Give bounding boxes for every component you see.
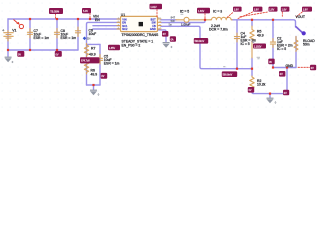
svg-text:GND: GND — [286, 64, 294, 68]
svg-text:EN: EN — [95, 18, 100, 22]
U1 pin numbers — [118, 18, 162, 30]
svg-text:0V: 0V — [269, 61, 272, 64]
capacitor C6 — [75, 27, 80, 37]
wire top rail left V1 to U1 VIN — [8, 18, 121, 20]
V1 plus mark — [2, 29, 4, 31]
svg-text:V1: V1 — [12, 28, 16, 32]
probe diamond EN — [83, 37, 87, 41]
svg-text:U1: U1 — [121, 13, 125, 17]
net label box n6 — [269, 7, 278, 12]
net label box VG_BAT — [49, 8, 63, 14]
svg-text:IC = 3: IC = 3 — [213, 9, 222, 13]
wire RLOAD column — [295, 37, 297, 68]
net label box gnd2 — [170, 36, 176, 42]
wire right gnd riser — [286, 68, 288, 94]
current probe arrow — [14, 20, 24, 29]
resistor R2 — [250, 76, 254, 89]
svg-text:1.192V: 1.192V — [254, 45, 262, 48]
net label box fbnode — [222, 71, 237, 77]
resistor R5 — [250, 26, 254, 58]
wire C8 column — [56, 19, 58, 50]
probe mark above r5 label — [252, 41, 255, 43]
capacitor C4 — [234, 33, 239, 42]
net label box n7 — [281, 7, 290, 12]
wire BST stub to ammeter — [161, 19, 176, 21]
svg-text:599.8mV: 599.8mV — [195, 40, 205, 43]
resistor R7 — [84, 44, 88, 57]
svg-text:5.0V: 5.0V — [83, 10, 88, 13]
inductor L1 — [211, 17, 233, 19]
wire C7 column — [29, 19, 31, 50]
ammeter A1 — [176, 17, 211, 22]
net label box BST — [150, 4, 163, 9]
svg-text:EN: EN — [87, 36, 91, 40]
wire R5 column — [251, 20, 253, 26]
net label box en — [108, 45, 120, 50]
svg-text:0V: 0V — [311, 67, 314, 70]
net label box VIN — [82, 8, 91, 13]
wire ground stub middle — [93, 85, 95, 90]
net label box n5 — [253, 7, 262, 12]
svg-text:847: 847 — [171, 15, 176, 19]
ground near U1 — [163, 42, 170, 48]
wire IC GND branch — [157, 30, 166, 42]
ground bottom left — [5, 50, 12, 62]
svg-text:R7: R7 — [91, 47, 95, 51]
svg-text:1.8V: 1.8V — [234, 9, 239, 12]
net label box fb — [194, 38, 208, 44]
wire top rail right — [232, 20, 296, 27]
wire C6 column — [77, 19, 79, 50]
svg-text:674.7uV: 674.7uV — [81, 60, 90, 63]
capacitor C2 — [270, 39, 275, 48]
svg-text:0V: 0V — [18, 53, 21, 56]
net label box gndb — [283, 90, 289, 95]
net label box r5b — [253, 44, 266, 49]
op-amp U1 TPS62300 body — [117, 19, 161, 29]
net label box U_SW — [197, 8, 210, 14]
svg-text:599.8mV: 599.8mV — [223, 74, 233, 77]
svg-text:49.9: 49.9 — [89, 53, 96, 57]
svg-text:0A: 0A — [171, 38, 174, 41]
svg-text:5W: 5W — [171, 19, 175, 23]
svg-text:TPS62300DRC_TRANS: TPS62300DRC_TRANS — [122, 33, 159, 37]
wire C5 column — [99, 44, 101, 85]
wire R2 bottom to gnd rail — [252, 88, 287, 94]
net label box rail1 — [17, 51, 24, 57]
wire R7 R6 column — [86, 44, 88, 85]
capacitor C5 — [97, 55, 102, 65]
net label box c2b — [279, 71, 285, 77]
svg-text:IC = 5: IC = 5 — [277, 47, 286, 51]
wire bottom rail left — [8, 49, 78, 51]
svg-text:50m: 50m — [303, 42, 310, 46]
switch S1 lever — [296, 27, 302, 32]
net label box rail2 — [55, 51, 62, 57]
resistor RLOAD — [294, 37, 298, 52]
wire left rail vertical V1 column — [7, 19, 9, 50]
switch S1 contact dot — [302, 31, 306, 35]
svg-text:TB.3B%: TB.3B% — [50, 10, 60, 13]
tiny node mark on fb wire — [223, 66, 225, 68]
wire C2 bottom — [272, 45, 274, 68]
ammeter icon marks — [181, 11, 184, 15]
ground middle — [90, 90, 97, 96]
wire EN branch — [87, 22, 122, 44]
wire C4 column — [236, 20, 238, 69]
svg-text:5m: 5m — [169, 25, 172, 27]
svg-text:IC = 5: IC = 5 — [241, 42, 250, 46]
probe mark mid right — [257, 57, 260, 59]
svg-text:1.81V: 1.81V — [150, 6, 157, 9]
svg-text:10uF: 10uF — [89, 32, 97, 36]
net label box gndr — [310, 65, 316, 70]
wire SW pin to rail riser — [161, 20, 205, 23]
voltage source V1 — [4, 19, 13, 41]
capacitor C8 — [54, 29, 59, 39]
wire middle bottom joining — [87, 84, 101, 86]
wire gnd stub bottom right — [269, 94, 271, 98]
svg-text:49.9: 49.9 — [91, 72, 98, 76]
svg-text:0V: 0V — [101, 75, 104, 78]
svg-text:DCR = 7.8m: DCR = 7.8m — [209, 28, 228, 32]
svg-text:1.00uF: 1.00uF — [181, 23, 191, 27]
svg-text:ESR = 1m: ESR = 1m — [104, 62, 120, 66]
svg-text:1.8V: 1.8V — [269, 9, 274, 12]
wire NC stub pin4 — [93, 28, 121, 30]
svg-text:0V: 0V — [56, 53, 59, 56]
svg-text:EN_PS0 = 2: EN_PS0 = 2 — [122, 43, 141, 47]
wire R5 bottom to FB node — [251, 58, 253, 76]
svg-text:1.81V: 1.81V — [198, 10, 205, 13]
svg-text:GND: GND — [150, 27, 156, 31]
svg-text:49.9: 49.9 — [257, 33, 264, 37]
wire NC stub pin3 — [93, 25, 121, 27]
svg-text:1.35V: 1.35V — [109, 47, 116, 50]
wire C2 column — [272, 20, 274, 41]
svg-text:NC2: NC2 — [122, 27, 128, 31]
svg-text:ESR = 1m: ESR = 1m — [34, 36, 50, 40]
svg-text:10.2k: 10.2k — [257, 83, 266, 87]
svg-text:ESR = 1m: ESR = 1m — [61, 36, 77, 40]
net label dashes red — [56, 10, 310, 68]
svg-text:0V: 0V — [284, 92, 287, 95]
svg-text:VOUT: VOUT — [296, 15, 305, 19]
resistor R6 — [84, 61, 88, 74]
svg-text:1.8V: 1.8V — [303, 9, 308, 12]
net label box n4 — [233, 7, 242, 12]
net label box r2b — [248, 87, 254, 93]
svg-text:0V: 0V — [163, 33, 166, 36]
svg-text:1.8V: 1.8V — [282, 9, 287, 12]
svg-text:0V: 0V — [249, 89, 252, 92]
net label box gnd1 — [162, 31, 168, 37]
ground bottom right — [267, 98, 274, 104]
wire FB line — [161, 26, 252, 68]
wire output gnd link — [273, 67, 296, 69]
net label box r7r6 — [80, 57, 100, 63]
U1 thermal pad — [139, 22, 143, 26]
svg-text:1.8V: 1.8V — [254, 9, 259, 12]
net label box c5b — [101, 73, 108, 79]
net label box c2t — [268, 59, 274, 65]
svg-text:0V: 0V — [280, 73, 283, 76]
net label box VOUT — [302, 7, 312, 12]
svg-text:IC = 5: IC = 5 — [180, 10, 189, 14]
capacitor C7 — [27, 29, 32, 39]
